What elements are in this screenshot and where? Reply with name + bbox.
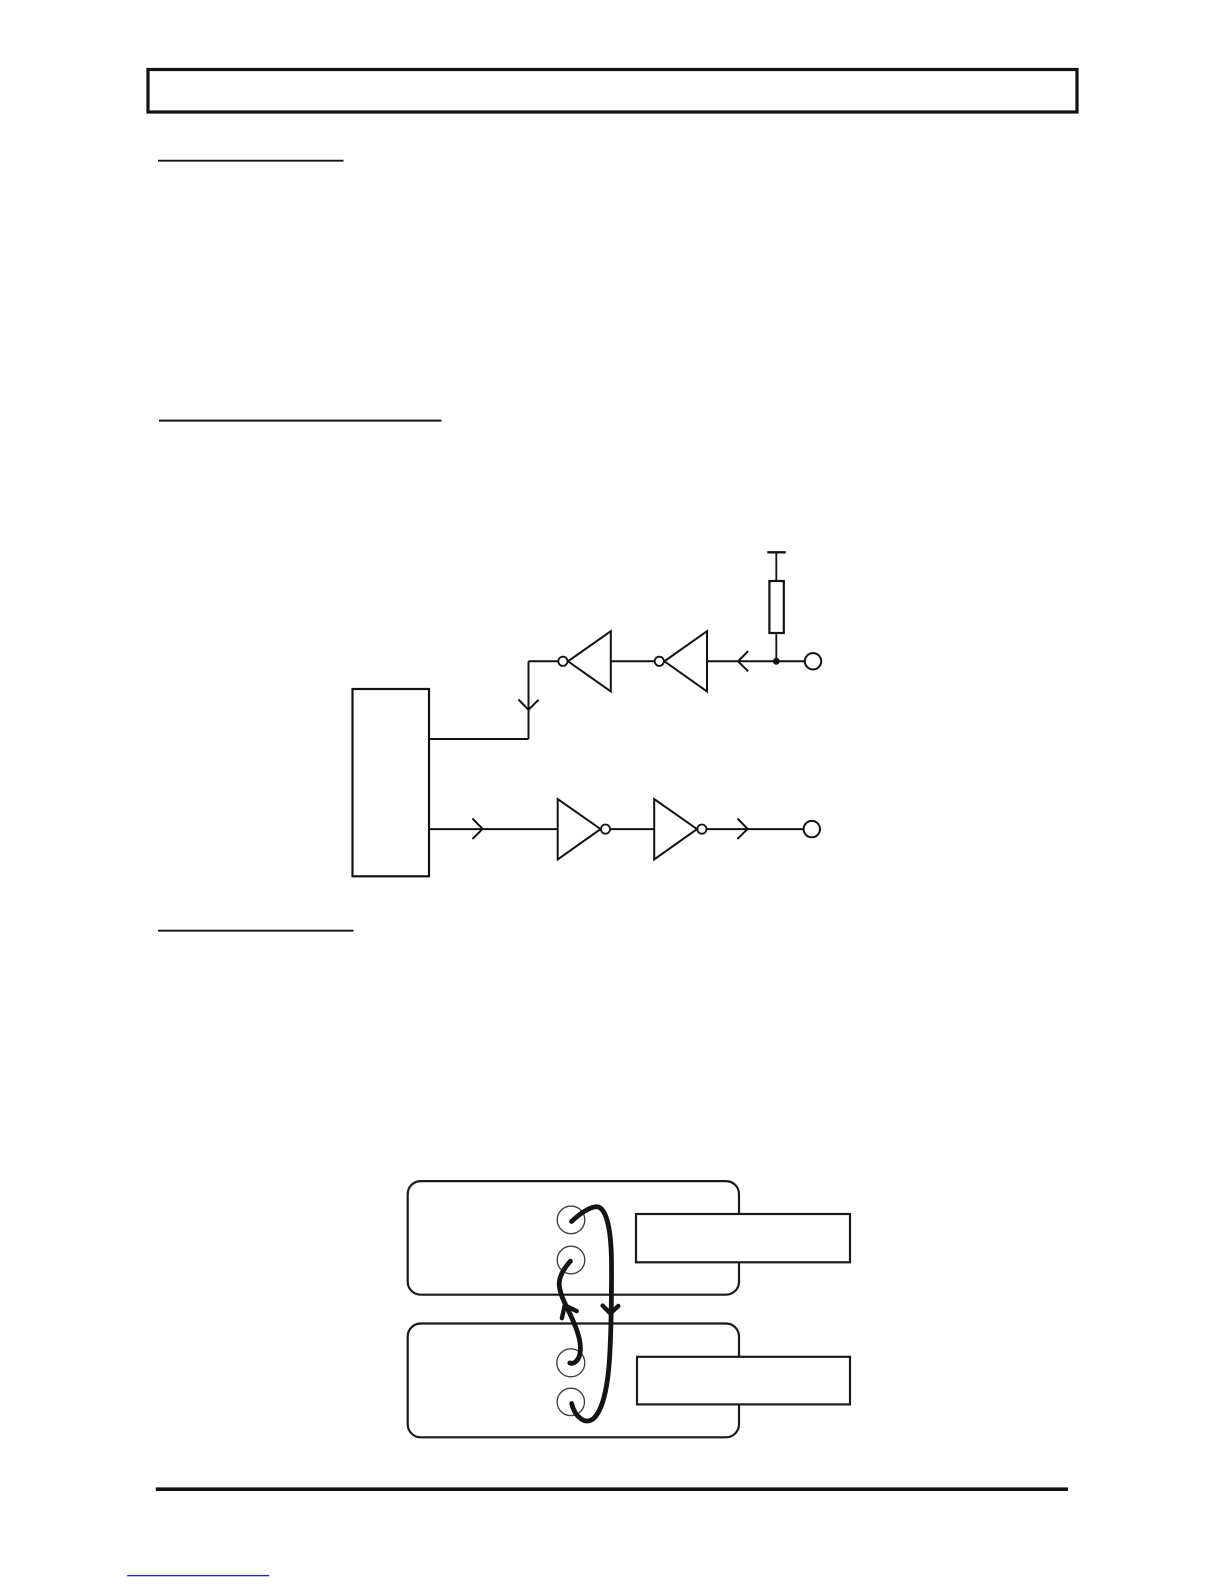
- title box: [148, 70, 1077, 113]
- arrowhead down on drop: [519, 700, 538, 710]
- node RXD junction: [773, 658, 780, 665]
- link underline: [127, 1575, 269, 1576]
- wire between buffers: [610, 828, 654, 830]
- wire between inverters: [611, 660, 655, 662]
- wire resistor to node: [775, 633, 777, 661]
- pin circle 4 bottom RXD: [557, 1388, 584, 1415]
- heading underline 2: [159, 420, 442, 422]
- arrowhead TXD out pointing right: [738, 819, 748, 838]
- resistor R1 pull-up: [769, 581, 783, 633]
- wire TXD out: [707, 828, 804, 830]
- crossover wire B bottom-pin3 to top-pin2: [559, 1261, 580, 1363]
- wire TXD from block: [429, 828, 558, 830]
- wire inverter output to corner: [529, 660, 559, 662]
- heading underline 3: [158, 930, 354, 932]
- label box top: [636, 1214, 850, 1262]
- inverter U1A: [558, 631, 610, 691]
- wire VCC to resistor: [775, 552, 777, 581]
- power VCC bar: [767, 551, 785, 553]
- IC block U2: [353, 689, 430, 876]
- terminal TXD pin: [804, 821, 820, 837]
- footer rule: [156, 1487, 1068, 1491]
- heading underline 1: [158, 160, 344, 162]
- arrowhead RXD pointing left: [738, 652, 748, 671]
- wire into block RXD: [429, 738, 529, 740]
- arrowhead wire B up: [562, 1305, 577, 1318]
- arrowhead TXD pointing right: [473, 819, 483, 838]
- pin circle 1 top TXD: [557, 1206, 585, 1234]
- inverter U1B: [655, 631, 707, 691]
- pin circle 2 top RXD: [557, 1246, 585, 1274]
- terminal RXD pin: [805, 653, 821, 669]
- connector box top: [408, 1181, 739, 1295]
- label box bottom: [637, 1357, 850, 1405]
- wire vertical drop: [528, 661, 530, 739]
- buffer U3A: [558, 799, 610, 859]
- crossover wire A top-pin1 to bottom-pin4: [572, 1207, 612, 1421]
- buffer U3B: [654, 799, 706, 859]
- connector box bottom: [408, 1324, 739, 1438]
- arrowhead wire A down: [603, 1306, 619, 1314]
- pin circle 3 bottom TXD: [557, 1349, 585, 1377]
- wire RXD horizontal: [708, 660, 805, 662]
